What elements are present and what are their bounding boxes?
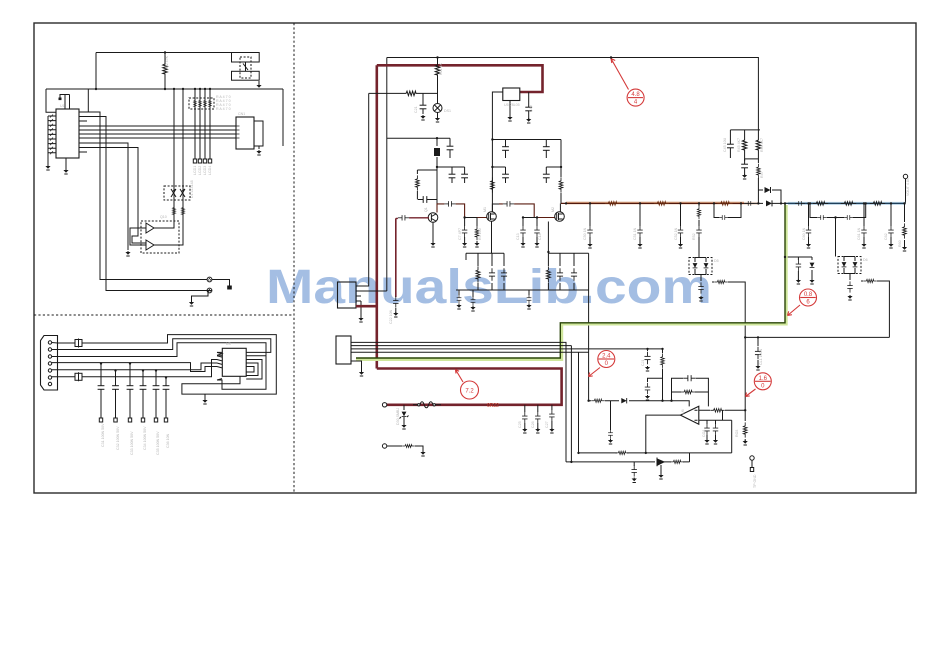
- ground J5: [359, 371, 364, 376]
- cap C46: [741, 159, 748, 173]
- callout 0.8/6 leader: [788, 305, 801, 316]
- connector CN1: [236, 117, 254, 149]
- wire x=437.5 from top rail: [437, 58, 439, 104]
- cap CO2: [713, 424, 718, 435]
- cap C13: [520, 226, 525, 237]
- feedback loop: [672, 378, 709, 406]
- svg-text:D6: D6: [863, 258, 868, 262]
- main bus orange halo: [566, 202, 758, 205]
- resistor RC3 on blue bus: [870, 202, 885, 206]
- connector J3 D-sub body: [41, 336, 58, 391]
- wire stage1 mid y=167: [437, 166, 465, 168]
- zener bar wings: [400, 416, 409, 426]
- cap CC3: [888, 226, 893, 237]
- pad P1 inner: [209, 279, 211, 281]
- wire rail y=89: [46, 88, 283, 90]
- svg-text:C21: C21: [414, 106, 418, 113]
- wire DB5 bottom cap: [700, 275, 702, 282]
- wire DB5 right resistor: [712, 282, 745, 335]
- ground pad P2: [189, 301, 194, 306]
- ground C21: [420, 115, 425, 120]
- wire J5 net4: [351, 351, 589, 353]
- cap C45: [729, 130, 731, 139]
- wire net2 y=350: [52, 339, 271, 353]
- callout 4.8/4 circle: [627, 89, 644, 106]
- wire top rail black: [387, 58, 759, 130]
- resistor RB4: [697, 206, 700, 220]
- svg-text:R46 4K7: R46 4K7: [760, 138, 764, 152]
- lamp cross: [434, 105, 440, 111]
- transistor pair dashed box Q10: [141, 221, 179, 253]
- resistor R20 on branch: [402, 91, 420, 95]
- wire DB6 bottom cap: [849, 274, 851, 281]
- cap CB3: [637, 226, 642, 237]
- ground CC1: [806, 243, 811, 248]
- resistor R31: [402, 444, 415, 447]
- wire DB5 internals: [695, 258, 706, 275]
- wire bus black segment: [744, 202, 788, 204]
- svg-text:C27: C27: [545, 421, 549, 428]
- maroon riser x=395.8: [395, 218, 397, 297]
- ground C14: [534, 242, 539, 247]
- pad C35: [154, 418, 157, 422]
- svg-text:ManualsLib.com: ManualsLib.com: [266, 261, 712, 314]
- ground CO4: [608, 439, 613, 444]
- wire M2 drain up to bus: [559, 203, 561, 211]
- svg-text:C45 10U: C45 10U: [723, 137, 727, 152]
- wire minus input net y=400.7: [589, 401, 690, 407]
- resistor R5 on x=492.4: [491, 177, 495, 192]
- pad TP4: [750, 468, 753, 472]
- wire DB6 right resistor: [861, 281, 889, 337]
- wire lamp branch y=93.4: [369, 92, 438, 94]
- cap C12 series: [503, 201, 514, 206]
- U1 right pin stubs: [79, 112, 87, 152]
- RC network top wire: [730, 129, 760, 131]
- wire loop to ground: [204, 394, 206, 400]
- cap C10: [502, 169, 509, 183]
- svg-text:TP GND: TP GND: [753, 474, 757, 488]
- cap C4 horizontal: [418, 196, 432, 203]
- cap-ground deep3: [528, 290, 530, 295]
- svg-text:U6: U6: [681, 409, 685, 414]
- wire regulator output: [492, 92, 502, 212]
- regulator U5: [503, 88, 520, 101]
- ground CO3: [632, 478, 637, 483]
- series cap loop right: [810, 203, 866, 256]
- cap C1: [449, 138, 451, 141]
- maroon bottom loop: [377, 369, 562, 405]
- ground CG1: [796, 279, 801, 284]
- pad P2: [207, 288, 212, 293]
- cap CB2: [587, 226, 592, 237]
- ground QO1: [658, 474, 663, 479]
- diode DB5b: [704, 263, 709, 268]
- svg-text:U1: U1: [60, 104, 65, 108]
- pad C34: [141, 418, 144, 422]
- svg-text:R2 47K: R2 47K: [165, 55, 169, 68]
- green wire core: [356, 203, 785, 358]
- resistor RF1 feedback: [681, 390, 695, 394]
- svg-text:C31 100N 50V: C31 100N 50V: [101, 423, 105, 447]
- svg-text:C13: C13: [516, 233, 520, 240]
- diode D1a: [171, 189, 176, 197]
- cap CN1: [645, 383, 650, 394]
- callout 7.2 circle: [461, 381, 479, 399]
- pad P2 inner: [209, 290, 211, 292]
- J3 pin 7: [48, 382, 51, 385]
- connector J5 bottom: [336, 336, 351, 364]
- bus branch x=590: [589, 203, 591, 244]
- wire base network: [417, 170, 437, 174]
- wire C40: [528, 92, 530, 119]
- ground C7: [462, 242, 467, 247]
- divider dashed horizontal: [34, 314, 294, 316]
- ground C40: [526, 118, 531, 123]
- diode box DB5 dashed: [689, 258, 712, 275]
- green tap branch: [785, 257, 812, 280]
- RA1 vertical wires: [195, 89, 210, 159]
- svg-text:0: 0: [605, 361, 609, 367]
- IC U3: [222, 348, 246, 376]
- wire vertical x=386.8: [386, 58, 388, 292]
- blue branch x=904.5 resistor: [904, 203, 906, 247]
- ground RC4: [902, 246, 907, 251]
- wire net4 y=363.5: [52, 352, 223, 371]
- cap C26: [535, 412, 540, 423]
- svg-text:RO3: RO3: [735, 430, 739, 437]
- wire J2b to ground: [258, 81, 260, 85]
- svg-text:C34 100N 50V: C34 100N 50V: [143, 426, 147, 450]
- svg-text:DS1: DS1: [444, 109, 451, 113]
- resistor R45: [744, 130, 746, 136]
- crystal Y1 above U1: [60, 95, 70, 110]
- resistor RD2: [546, 266, 550, 282]
- svg-text:LCD2: LCD2: [198, 166, 202, 175]
- maroon stub J4: [356, 305, 377, 308]
- ground C22: [393, 312, 398, 317]
- cap CL1 on L net: [757, 337, 759, 346]
- wire bus blue core: [785, 202, 906, 204]
- svg-text:C60 1N: C60 1N: [802, 227, 806, 240]
- ground D30: [401, 424, 406, 429]
- cap C3: [464, 167, 466, 169]
- wire deep rail right y=253.2: [548, 253, 588, 401]
- link box L1: [435, 149, 440, 156]
- cap C32: [112, 381, 119, 395]
- callout 2.4/0 divider: [599, 358, 615, 360]
- cap C22 under riser: [393, 296, 398, 307]
- cap-ground deep1: [458, 290, 460, 295]
- CN1 pin ticks: [236, 126, 240, 138]
- wire C22 stub: [395, 308, 397, 313]
- callout 0.8/6 circle: [800, 289, 817, 306]
- svg-text:C50 1N: C50 1N: [583, 227, 587, 240]
- cap column C33: [129, 364, 131, 419]
- ground CB2: [587, 243, 592, 248]
- ferrite bead FB2: [75, 373, 82, 380]
- pad P1 end dot: [228, 286, 232, 289]
- cap C6 series: [444, 201, 455, 206]
- ground CB3: [637, 243, 642, 248]
- resistor RD1: [476, 266, 480, 282]
- wire drop x=138: [87, 148, 146, 244]
- cap C33: [127, 381, 134, 395]
- wire resistor leads: [164, 53, 166, 90]
- cap-ground deep2: [472, 290, 474, 297]
- ground C26: [535, 428, 540, 433]
- svg-text:CO1: CO1: [702, 430, 706, 437]
- pad C32: [114, 418, 117, 422]
- cap C25: [522, 412, 527, 423]
- wire net3 tap vertical x=662.5: [662, 349, 664, 401]
- diode DB1 on bus: [766, 200, 772, 206]
- svg-text:Q1: Q1: [424, 207, 428, 212]
- svg-text:R52: R52: [692, 233, 696, 240]
- svg-text:2.4: 2.4: [602, 354, 611, 360]
- svg-text:C52 1N: C52 1N: [674, 227, 678, 240]
- svg-text:C61 1N: C61 1N: [857, 227, 861, 240]
- resistor R47 vertical: [757, 164, 761, 178]
- svg-text:VOUT 4.8V: VOUT 4.8V: [906, 177, 910, 196]
- terminal TP3: [382, 444, 386, 448]
- cap C34: [140, 381, 147, 395]
- ground CC3: [888, 243, 893, 248]
- pad C31: [99, 418, 102, 422]
- cap CD1: [489, 268, 495, 281]
- J3 pin 6: [48, 376, 51, 379]
- RA1 resistors: [194, 98, 197, 109]
- wire J4 pin3 stub: [356, 296, 361, 301]
- cap CB5: [696, 226, 701, 237]
- callout 0.8/6 divider: [800, 297, 816, 299]
- svg-text:C25: C25: [518, 421, 522, 428]
- J3 pin 2: [48, 348, 51, 351]
- svg-text:C40: C40: [529, 105, 533, 112]
- diode DO1: [621, 398, 626, 403]
- wire x=283 drop: [282, 89, 284, 146]
- wire C4 to base: [432, 196, 437, 203]
- resistor RB3 on bus: [717, 202, 732, 206]
- svg-text:R60: R60: [898, 240, 902, 247]
- MOSFET M2: [555, 212, 565, 222]
- resistor R3: [475, 226, 479, 240]
- wire joining R45 R46: [745, 154, 759, 163]
- resistor RO5: [670, 460, 684, 463]
- svg-text:M1: M1: [483, 207, 487, 212]
- main bus wire maroon-orange: [561, 202, 744, 204]
- stage1 output loads: [465, 218, 477, 243]
- cap CB1 series on bus: [745, 201, 755, 206]
- cap CO1: [704, 424, 709, 435]
- ground C25: [522, 428, 527, 433]
- resistor array RA1 dashed box: [189, 98, 214, 109]
- ground CJ1: [645, 366, 650, 371]
- diode DG1: [810, 263, 815, 268]
- crystal tap dot: [59, 98, 62, 101]
- wire stage2 top rail y=139.5: [492, 139, 561, 141]
- cap CC1: [806, 226, 811, 237]
- wire bottom rail y=452.9: [579, 352, 732, 453]
- ground C46: [742, 174, 747, 179]
- resistor RN1: [661, 354, 665, 368]
- wire right L net: [745, 335, 889, 411]
- resistor RC1 on blue bus: [813, 202, 828, 206]
- J3 pin 1: [48, 341, 51, 344]
- MOSFET M1: [487, 212, 497, 222]
- cap C9: [545, 140, 547, 142]
- wire diode bypass branch: [758, 190, 781, 203]
- wire J5 net3: [351, 348, 663, 350]
- cap CD4: [571, 268, 577, 281]
- signal wire Q1 collector up and right: [437, 204, 487, 218]
- diode DB5a: [693, 263, 698, 268]
- header box J2a: [232, 53, 260, 63]
- cap column C36: [165, 378, 167, 419]
- svg-text:0R22: 0R22: [487, 403, 499, 409]
- cap C2: [451, 167, 453, 169]
- ground CL1: [755, 365, 760, 370]
- zener D30: [403, 405, 405, 410]
- wire J4 pin2 x=386.8: [356, 290, 387, 292]
- cap CC2: [861, 226, 866, 237]
- wire M2 source drop: [547, 222, 549, 254]
- resistor R1: [416, 175, 420, 190]
- divider dashed vertical: [293, 23, 295, 493]
- callout 2.4/0 leader: [589, 368, 601, 377]
- svg-text:CJ1: CJ1: [641, 360, 645, 366]
- opamp input marks: [695, 410, 698, 420]
- ground CC2: [861, 243, 866, 248]
- svg-text:U3: U3: [226, 342, 231, 346]
- border frame (decorative): [34, 23, 916, 493]
- ground DB5: [698, 296, 703, 301]
- ground RO3: [743, 440, 748, 445]
- J3 pin 5: [48, 369, 51, 372]
- cap C36: [163, 381, 170, 395]
- diode D1b: [180, 189, 185, 197]
- ground CO1: [704, 439, 709, 444]
- wire net6 y=377.5: [52, 360, 217, 377]
- callout 2.4/0 circle: [598, 351, 615, 368]
- svg-text:CN1: CN1: [238, 112, 245, 116]
- svg-text:R21 1K: R21 1K: [439, 62, 443, 75]
- pads under RA1: [193, 159, 196, 163]
- svg-text:C26: C26: [531, 421, 535, 428]
- svg-text:LCD1: LCD1: [193, 166, 197, 175]
- cap CB6: [719, 215, 729, 220]
- IC U1: [56, 109, 79, 158]
- resistor RB2 on bus: [654, 202, 669, 206]
- resistor R21: [435, 61, 439, 79]
- wire lower rail y=461.9: [566, 346, 690, 462]
- cap column C31: [100, 364, 102, 419]
- wire CL1 stub: [757, 360, 759, 366]
- parallel cap loop on RB3: [714, 203, 741, 217]
- wire junction dots: [96, 53, 905, 462]
- cap column C32: [115, 371, 117, 419]
- bus orange tint overlay: [566, 201, 744, 203]
- fuse F1 body: [413, 402, 441, 408]
- callout 1.6/0 divider: [755, 380, 771, 382]
- pad C36: [164, 418, 167, 422]
- wire net5 y=370.5: [52, 363, 217, 370]
- resistor RB8: [863, 279, 877, 282]
- cap C5 series: [398, 215, 409, 220]
- cap CC4: [817, 215, 827, 220]
- cap C31: [98, 381, 105, 395]
- J3 pin 3: [48, 355, 51, 358]
- cap C14: [534, 226, 539, 237]
- power wire maroon long vertical: [375, 65, 378, 368]
- callout 7.2 leader: [456, 370, 464, 383]
- svg-text:6: 6: [806, 300, 810, 306]
- cap CB4: [678, 226, 683, 237]
- ground below U1 rail: [45, 165, 50, 170]
- svg-text:C51 1N: C51 1N: [633, 227, 637, 240]
- cap CO3: [633, 462, 635, 466]
- wire R20 leads: [394, 92, 428, 94]
- svg-text:LCD4: LCD4: [208, 166, 212, 175]
- svg-text:R3 100: R3 100: [478, 228, 482, 240]
- svg-text:Q10: Q10: [160, 215, 167, 219]
- wire net3 y=356.5: [52, 343, 266, 390]
- wire deep rail left y=253.2: [466, 253, 504, 290]
- svg-text:CL1 100N: CL1 100N: [759, 348, 763, 365]
- pad C33: [128, 418, 131, 422]
- wire R6 down to M2: [560, 193, 562, 203]
- lamp DS1: [433, 104, 442, 113]
- svg-text:U5 78L05: U5 78L05: [504, 103, 520, 107]
- ground regulator: [507, 116, 512, 121]
- U1 bottom lead wire: [65, 158, 67, 170]
- svg-text:C36 10N: C36 10N: [166, 433, 170, 448]
- ground Q1: [430, 242, 435, 247]
- resistor RB7: [714, 280, 728, 283]
- ground below U1: [63, 169, 68, 174]
- bus branch x=699 resistor cap chain: [698, 203, 700, 257]
- svg-text:R A 4 7 0: R A 4 7 0: [216, 107, 231, 111]
- resistor RO1: [591, 399, 605, 402]
- svg-text:C35 100N 50V: C35 100N 50V: [156, 431, 160, 455]
- cap C40 at regulator input: [525, 102, 532, 116]
- wire drop x=100 to pad row: [87, 112, 207, 280]
- wire QO1 emitter ground: [660, 465, 662, 475]
- wire J4 pin1 up x=368.7: [356, 93, 369, 286]
- cap CG1: [796, 260, 801, 271]
- U1 left pins: [48, 116, 56, 153]
- ground DB6: [847, 295, 852, 300]
- jumper element inside: [243, 62, 248, 71]
- resistor under D1a: [172, 205, 175, 218]
- svg-text:C22 10N: C22 10N: [389, 309, 393, 324]
- blue branch x=864: [863, 203, 865, 244]
- terminal TP1: [903, 174, 907, 178]
- wire drop x=174 from rail: [173, 89, 175, 221]
- ground x=128: [125, 251, 130, 256]
- wire top rail y=52.5: [96, 52, 232, 54]
- ferrite bead FB1: [75, 340, 82, 347]
- svg-text:7.2: 7.2: [465, 389, 474, 395]
- svg-text:R45 4K7: R45 4K7: [737, 138, 741, 152]
- wire CN1 ground lead: [258, 146, 260, 149]
- cap CF1 feedback: [683, 375, 696, 381]
- blue branch x=891: [890, 203, 892, 244]
- svg-text:M2: M2: [551, 207, 555, 212]
- wire drop x=106 to pad row: [87, 117, 207, 291]
- U3 right pin wires: [246, 360, 262, 380]
- wire drop x=183 from rail: [182, 89, 184, 221]
